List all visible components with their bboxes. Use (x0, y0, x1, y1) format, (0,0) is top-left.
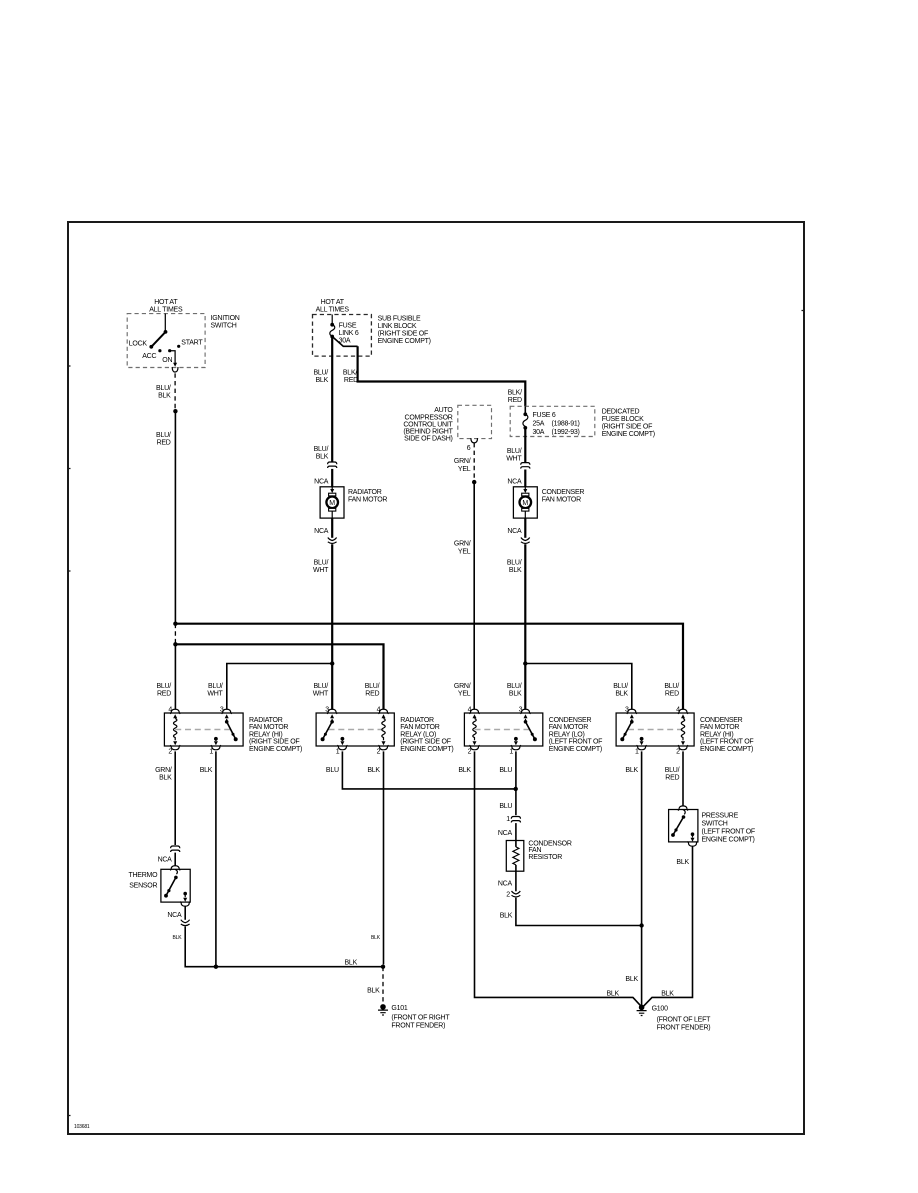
svg-text:BLK: BLK (316, 454, 329, 461)
svg-text:(LEFT FRONT OF: (LEFT FRONT OF (700, 739, 753, 746)
ignition switch contacts (158, 349, 161, 352)
svg-text:BLK: BLK (661, 990, 674, 997)
dedicated fuse block box (510, 406, 595, 436)
svg-text:CONDENSER: CONDENSER (549, 717, 592, 724)
svg-text:BLU/: BLU/ (507, 559, 522, 566)
K4 pin 4 (678, 709, 688, 714)
svg-text:FUSE 6: FUSE 6 (533, 412, 556, 419)
svg-text:CONTROL UNIT: CONTROL UNIT (403, 421, 453, 428)
svg-text:RED: RED (365, 691, 379, 698)
svg-text:6: 6 (467, 445, 471, 452)
K1 pin 4 (170, 709, 180, 714)
svg-text:AUTO: AUTO (434, 407, 453, 414)
svg-text:SUB FUSIBLE: SUB FUSIBLE (378, 316, 421, 323)
svg-text:BLK: BLK (500, 913, 513, 920)
svg-text:BLU/: BLU/ (507, 448, 522, 455)
wire BLK from K2 pin2 (383, 751, 385, 964)
K1 pin 2 (170, 745, 180, 750)
condenser fan resistor (506, 841, 524, 872)
svg-text:BLK: BLK (458, 767, 471, 774)
svg-text:FUSE BLOCK: FUSE BLOCK (602, 416, 644, 423)
svg-text:NCA: NCA (498, 830, 513, 837)
svg-text:M: M (329, 500, 335, 507)
svg-text:LINK 6: LINK 6 (339, 330, 359, 337)
wire BLU/BLK to radiator fan motor (331, 337, 333, 462)
svg-text:WHT: WHT (207, 691, 223, 698)
K3 pin 4 (469, 709, 479, 714)
svg-text:RELAY (LO): RELAY (LO) (400, 731, 436, 738)
svg-text:RED: RED (665, 775, 679, 782)
svg-text:SWITCH: SWITCH (211, 322, 237, 329)
svg-text:G101: G101 (391, 1005, 407, 1012)
svg-text:BLK/: BLK/ (343, 369, 357, 376)
svg-text:BLK: BLK (625, 976, 638, 983)
svg-text:HOT AT: HOT AT (154, 299, 178, 306)
K2 pin 3 (327, 709, 337, 714)
svg-text:WHT: WHT (313, 567, 329, 574)
connector 2 NCA (resistor col) (515, 865, 517, 891)
svg-text:3: 3 (519, 707, 523, 714)
svg-text:BLK: BLK (371, 935, 381, 941)
dashed link between splices (174, 624, 176, 645)
splice dot (472, 480, 476, 484)
svg-text:(FRONT OF LEFT: (FRONT OF LEFT (657, 1016, 712, 1023)
svg-text:RESISTOR: RESISTOR (528, 854, 562, 861)
svg-text:BLK: BLK (676, 859, 689, 866)
auto compressor control unit box (458, 405, 492, 438)
wire GRN/YEL solid to relay (473, 482, 475, 710)
wire GRN/BLK from K1 pin2 (174, 751, 176, 845)
svg-text:SENSOR: SENSOR (129, 882, 157, 889)
wire BLU/RED down to bus (174, 411, 176, 624)
svg-text:BLK: BLK (615, 691, 628, 698)
bus wire 2 (BLU/RED to radiator relay LO) (173, 642, 177, 646)
svg-text:2: 2 (168, 749, 172, 756)
K4 pin 2 (678, 745, 688, 750)
svg-text:RELAY (LO): RELAY (LO) (549, 731, 585, 738)
svg-text:2: 2 (506, 891, 510, 898)
svg-text:NCA: NCA (498, 880, 513, 887)
svg-text:NCA: NCA (167, 912, 182, 919)
K3 coil (473, 718, 476, 740)
svg-text:START: START (181, 340, 203, 347)
svg-text:YEL: YEL (458, 548, 471, 555)
svg-text:HOT AT: HOT AT (321, 299, 345, 306)
svg-text:BLK: BLK (316, 377, 329, 384)
K2 switch (330, 720, 334, 724)
K3 switch (524, 720, 528, 724)
svg-text:NCA: NCA (507, 528, 522, 535)
wire BLU/BLK down to relays (524, 544, 526, 710)
ground G101 (378, 1004, 388, 1015)
svg-text:ALL TIMES: ALL TIMES (149, 307, 183, 314)
wire GRN/YEL (dashed) (473, 443, 475, 480)
svg-text:RED: RED (508, 397, 522, 404)
thermo sensor (161, 869, 190, 902)
svg-text:LOCK: LOCK (129, 341, 148, 348)
wire BLK from K4 pin1 to G100 (641, 751, 643, 1005)
svg-text:BLU/: BLU/ (613, 683, 628, 690)
svg-text:BLK/: BLK/ (508, 390, 522, 397)
svg-text:PRESSURE: PRESSURE (702, 813, 739, 820)
svg-text:(RIGHT SIDE OF: (RIGHT SIDE OF (602, 424, 652, 431)
svg-text:NCA: NCA (507, 478, 522, 485)
K2 coil (382, 718, 385, 740)
K1 pin 1 contact (214, 737, 218, 741)
svg-text:4: 4 (468, 707, 472, 714)
svg-text:RED: RED (665, 691, 679, 698)
wire BLK from resistor to K4 pin1 column (516, 898, 642, 926)
svg-text:FUSE: FUSE (339, 323, 357, 330)
svg-text:CONDENSER: CONDENSER (542, 489, 585, 496)
svg-text:NCA: NCA (158, 856, 173, 863)
svg-text:FAN MOTOR: FAN MOTOR (348, 497, 387, 504)
svg-text:1: 1 (509, 749, 513, 756)
svg-text:ALL TIMES: ALL TIMES (316, 307, 350, 314)
wire BLK from thermo to junction (185, 926, 216, 966)
svg-text:ENGINE COMPT): ENGINE COMPT) (700, 746, 753, 753)
svg-text:GRN/: GRN/ (454, 541, 471, 548)
svg-text:(LEFT FRONT OF: (LEFT FRONT OF (549, 739, 602, 746)
relay K1 RADIATOR FAN MOTOR RELAY (HI) (164, 713, 243, 746)
svg-text:LINK BLOCK: LINK BLOCK (378, 323, 417, 330)
svg-text:BLK: BLK (509, 691, 522, 698)
K1 pin 3 (222, 709, 232, 714)
svg-text:BLU/: BLU/ (156, 385, 171, 392)
svg-text:RED: RED (344, 377, 358, 384)
wire BLK from K3 pin2 to G100 (475, 751, 642, 1006)
svg-text:30A: 30A (533, 429, 545, 436)
svg-text:25A: 25A (533, 421, 545, 428)
svg-text:M: M (522, 500, 528, 507)
wire BLU/RED to radiator relay HI (174, 644, 176, 709)
svg-text:BLU/: BLU/ (314, 559, 329, 566)
connector NCA (radiator col) (328, 462, 337, 468)
K3 pin 1 contact (514, 737, 518, 741)
svg-text:FRONT FENDER): FRONT FENDER) (391, 1022, 445, 1029)
svg-text:YEL: YEL (458, 691, 471, 698)
svg-text:BLU/: BLU/ (313, 683, 328, 690)
wire BLU/BLK (dashed) from ignition (174, 373, 176, 409)
K4 pin 3 (627, 709, 637, 714)
svg-text:FAN MOTOR: FAN MOTOR (249, 724, 288, 731)
svg-text:CONDENSER: CONDENSER (700, 717, 743, 724)
sub fusible link block box (313, 315, 372, 357)
svg-text:RED: RED (157, 691, 171, 698)
connector 1 NCA (resistor col) (511, 817, 520, 823)
wire BLK from K1 pin1 (215, 751, 217, 966)
svg-text:FAN MOTOR: FAN MOTOR (549, 724, 588, 731)
svg-text:RADIATOR: RADIATOR (348, 489, 382, 496)
wire below condenser motor (524, 518, 526, 538)
connector NCA (condenser col) (521, 463, 530, 469)
svg-text:(RIGHT SIDE OF: (RIGHT SIDE OF (249, 739, 299, 746)
wire BLK junction run (216, 966, 383, 968)
svg-text:RELAY (HI): RELAY (HI) (249, 731, 282, 738)
svg-text:(LEFT FRONT OF: (LEFT FRONT OF (702, 829, 755, 836)
svg-text:2: 2 (676, 749, 680, 756)
svg-text:(BEHIND RIGHT: (BEHIND RIGHT (403, 429, 453, 436)
svg-text:4: 4 (676, 707, 680, 714)
outer frame (68, 222, 804, 1134)
svg-text:WHT: WHT (313, 691, 329, 698)
svg-text:BLK: BLK (159, 775, 172, 782)
K3 pin 2 (469, 745, 479, 750)
K4 switch (630, 720, 634, 724)
svg-text:ON: ON (162, 357, 172, 364)
bus wire 1 (BLU/RED to condenser relay HI) (173, 622, 177, 626)
ignition switch blade (164, 330, 168, 334)
connector below ignition switch (172, 367, 178, 372)
svg-text:1: 1 (506, 816, 510, 823)
svg-text:ACC: ACC (142, 353, 156, 360)
svg-text:(1992-93): (1992-93) (552, 429, 580, 436)
svg-text:ENGINE COMPT): ENGINE COMPT) (602, 431, 655, 438)
wire BLU/WHT down to relays (331, 544, 333, 710)
svg-text:SIDE OF DASH): SIDE OF DASH) (404, 436, 452, 443)
K1 switch (225, 720, 229, 724)
branch: radiator motor to relay1 pin3 (330, 661, 334, 665)
pressure switch output pin (691, 832, 695, 836)
svg-text:BLU/: BLU/ (665, 767, 680, 774)
svg-text:GRN/: GRN/ (155, 767, 172, 774)
K1 coil (174, 718, 177, 740)
thermo sensor output pin (183, 892, 187, 896)
relay K2 RADIATOR FAN MOTOR RELAY (LO) (316, 713, 394, 746)
radiator fan motor M (320, 487, 344, 518)
K3 pin 3 (520, 709, 530, 714)
svg-text:ENGINE COMPT): ENGINE COMPT) (549, 746, 602, 753)
svg-text:NCA: NCA (314, 478, 329, 485)
wire: feed into ignition switch (164, 314, 166, 332)
svg-text:4: 4 (377, 707, 381, 714)
svg-text:WHT: WHT (506, 456, 522, 463)
svg-text:GRN/: GRN/ (454, 458, 471, 465)
svg-text:(FRONT OF RIGHT: (FRONT OF RIGHT (391, 1014, 450, 1021)
K2 pin 2 (378, 745, 388, 750)
svg-text:3: 3 (220, 707, 224, 714)
fuse 6 (524, 406, 526, 414)
svg-text:2: 2 (468, 749, 472, 756)
K4 pin 1 contact (640, 737, 644, 741)
svg-text:BLK: BLK (345, 959, 358, 966)
svg-text:BLU/: BLU/ (208, 683, 223, 690)
svg-text:RADIATOR: RADIATOR (249, 717, 283, 724)
wire BLK from pressure switch to G100 (644, 846, 693, 1006)
svg-text:RADIATOR: RADIATOR (400, 717, 434, 724)
svg-text:THERMO: THERMO (128, 872, 158, 879)
svg-text:(1988-91): (1988-91) (552, 421, 580, 428)
svg-text:3: 3 (325, 707, 329, 714)
wire: ON terminal to connector (170, 351, 175, 365)
junction to ground G101 (381, 965, 385, 969)
K2 pin 1 contact (341, 737, 345, 741)
fuse link 6 30A (331, 315, 333, 325)
K4 coil (681, 718, 684, 740)
ground G100 (637, 1005, 647, 1016)
svg-text:YEL: YEL (458, 466, 471, 473)
svg-text:103681: 103681 (74, 1124, 90, 1130)
svg-text:(RIGHT SIDE OF: (RIGHT SIDE OF (378, 331, 428, 338)
svg-text:BLU/: BLU/ (314, 446, 329, 453)
svg-text:4: 4 (168, 707, 172, 714)
svg-text:1: 1 (336, 749, 340, 756)
pressure switch (678, 806, 688, 811)
connector NCA (thermo col) (171, 846, 180, 852)
svg-text:BLK: BLK (158, 392, 171, 399)
wire BLU/RED from K4 pin2 (682, 751, 684, 806)
wire BLU from K2 pin1 (342, 751, 515, 789)
svg-text:ENGINE COMPT): ENGINE COMPT) (249, 746, 302, 753)
svg-text:BLU: BLU (326, 767, 339, 774)
svg-text:BLK: BLK (200, 767, 213, 774)
wire BLU/WHT to condenser fan motor (524, 428, 526, 462)
svg-text:COMPRESSOR: COMPRESSOR (405, 414, 453, 421)
condenser fan motor M (513, 487, 537, 518)
svg-text:BLK: BLK (367, 767, 380, 774)
svg-text:BLU: BLU (499, 803, 512, 810)
svg-text:1: 1 (209, 749, 213, 756)
wire BLK/RED from fuse link (332, 337, 357, 347)
svg-text:BLK: BLK (509, 567, 522, 574)
pin 6 of control unit (471, 438, 478, 443)
svg-text:BLK: BLK (367, 988, 380, 995)
svg-text:1: 1 (635, 749, 639, 756)
svg-text:FAN MOTOR: FAN MOTOR (542, 497, 581, 504)
svg-text:GRN/: GRN/ (454, 683, 471, 690)
ignition switch box (127, 314, 205, 368)
svg-text:BLU/: BLU/ (156, 683, 171, 690)
svg-text:G100: G100 (652, 1006, 668, 1013)
junction (214, 965, 218, 969)
svg-text:BLK: BLK (625, 767, 638, 774)
K2 pin 4 (378, 709, 388, 714)
svg-text:ENGINE COMPT): ENGINE COMPT) (702, 837, 755, 844)
connector (thermo to BLK) (184, 906, 186, 919)
svg-text:ENGINE COMPT): ENGINE COMPT) (400, 746, 453, 753)
svg-text:2: 2 (377, 749, 381, 756)
svg-text:BLU/: BLU/ (664, 683, 679, 690)
relay K3 CONDENSER FAN MOTOR RELAY (LO) (464, 713, 542, 746)
svg-text:BLU/: BLU/ (507, 683, 522, 690)
svg-text:BLU: BLU (499, 767, 512, 774)
wire BLU from K3 pin1 (515, 751, 517, 815)
svg-text:BLK: BLK (173, 935, 183, 941)
svg-text:FAN MOTOR: FAN MOTOR (400, 724, 439, 731)
svg-text:NCA: NCA (314, 528, 329, 535)
svg-text:FAN MOTOR: FAN MOTOR (700, 724, 739, 731)
svg-text:ENGINE COMPT): ENGINE COMPT) (378, 338, 431, 345)
svg-text:RELAY (HI): RELAY (HI) (700, 731, 733, 738)
svg-text:3: 3 (625, 707, 629, 714)
wire below radiator motor (331, 518, 333, 538)
svg-text:BLK: BLK (607, 990, 620, 997)
svg-text:BLU/: BLU/ (313, 369, 328, 376)
svg-text:BLU/: BLU/ (156, 432, 171, 439)
branch: condenser motor to relay4 pin3 (523, 661, 527, 665)
svg-text:BLU/: BLU/ (365, 683, 380, 690)
relay K4 CONDENSER FAN MOTOR RELAY (HI) (616, 713, 694, 746)
svg-text:DEDICATED: DEDICATED (602, 409, 640, 416)
svg-text:FRONT FENDER): FRONT FENDER) (657, 1024, 711, 1031)
splice dot (173, 409, 177, 413)
svg-text:IGNITION: IGNITION (211, 315, 240, 322)
junction BLU (K2 to resistor) (514, 787, 518, 791)
svg-text:SWITCH: SWITCH (702, 821, 728, 828)
svg-text:(RIGHT SIDE OF: (RIGHT SIDE OF (400, 739, 450, 746)
svg-text:RED: RED (157, 440, 171, 447)
